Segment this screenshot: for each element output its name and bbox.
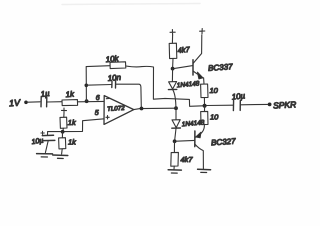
svg-text:TL072: TL072 [107, 105, 126, 113]
node C BC337 base node [171, 67, 175, 71]
wire C4 to SPKR [241, 103, 268, 105]
svg-text:6: 6 [96, 95, 100, 102]
resistor R6 4k7 [171, 142, 194, 170]
faint scanner streak [62, 4, 200, 5]
op-amp U1 TL072 [95, 95, 134, 125]
node feedback 10n tap [85, 84, 89, 88]
wire op-amp output [134, 108, 177, 109]
node E BC327 base node [173, 139, 177, 143]
svg-text:1k: 1k [68, 118, 77, 127]
diode D1 1N4148 [168, 69, 200, 108]
ground under Q2 collector [198, 169, 211, 172]
resistor R1 1k [62, 89, 78, 105]
node B divider junction [61, 130, 65, 134]
node A feedback junction [85, 99, 89, 103]
svg-text:10n: 10n [107, 73, 122, 83]
svg-text:1k: 1k [68, 138, 77, 147]
wire C2 to op-amp output [116, 84, 142, 107]
wire node C to Q1 base [175, 66, 193, 69]
wire R2 to speaker node (feedback pickup) [126, 66, 203, 106]
svg-text:BC337: BC337 [208, 62, 234, 73]
wire node B to C3 [48, 132, 61, 136]
wire R1 to op-amp inverting input [78, 100, 104, 102]
capacitor C1 1u [40, 89, 50, 107]
capacitor C4 10u [231, 91, 246, 110]
diode D2 1N4148 [172, 108, 205, 141]
svg-text:10: 10 [210, 113, 219, 122]
resistor R3 1k [60, 117, 77, 131]
wire C1 to R1 [47, 101, 62, 103]
svg-text:5: 5 [95, 110, 99, 117]
node output-10n [140, 107, 144, 111]
wire IN to C1 [28, 101, 40, 103]
svg-text:4k7: 4k7 [177, 45, 191, 55]
svg-text:1N4148: 1N4148 [176, 80, 200, 89]
resistor R5 4k7 [169, 43, 191, 68]
power +V rail1 [170, 30, 175, 44]
svg-text:1V: 1V [9, 98, 22, 109]
svg-text:10k: 10k [105, 54, 120, 64]
resistor R8 10 [201, 106, 219, 125]
svg-text:SPKR: SPKR [273, 99, 297, 110]
power +V rail2 [200, 29, 205, 35]
wire node F to C4 [207, 104, 234, 106]
wire node E to Q2 base [176, 139, 194, 142]
svg-text:1µ: 1µ [40, 89, 50, 99]
svg-text:10µ: 10µ [231, 91, 246, 101]
svg-text:BC327: BC327 [211, 137, 237, 148]
svg-text:1k: 1k [65, 89, 75, 99]
power +V divider [62, 108, 67, 117]
transistor Q1 BC337 [193, 35, 233, 84]
resistor R4 1k [59, 132, 78, 154]
capacitor C2 10n [107, 73, 122, 88]
node IN 1V [9, 98, 28, 109]
ground under R4 [53, 155, 68, 159]
transistor Q2 BC327 [195, 125, 237, 169]
capacitor C3 10u [31, 131, 55, 152]
svg-text:4k7: 4k7 [181, 155, 194, 164]
wire riser top to R2 [86, 65, 110, 68]
node output-diodes [174, 106, 178, 110]
resistor R2 10k [105, 54, 126, 69]
node F speaker node [203, 104, 207, 108]
wire 10n row: tap to C2 [86, 84, 111, 87]
ground under C3 [37, 154, 53, 157]
svg-text:10µ: 10µ [31, 138, 44, 147]
wire feedback vertical riser [85, 67, 87, 101]
node SPKR [268, 99, 297, 110]
svg-text:10: 10 [210, 86, 219, 95]
wire non-inverting input [65, 119, 105, 132]
resistor R7 10 [201, 84, 219, 104]
ground under R6 [168, 170, 181, 173]
